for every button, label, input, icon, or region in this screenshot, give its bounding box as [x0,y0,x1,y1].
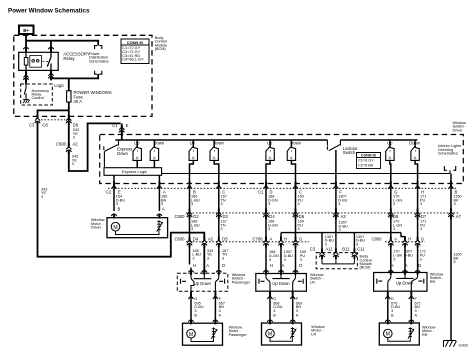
svg-text:H: H [408,237,411,242]
svg-text:Up Down: Up Down [194,281,212,286]
svg-text:D: D [222,263,225,268]
svg-text:A: A [394,237,397,242]
svg-text:3: 3 [298,227,300,231]
svg-text:A11: A11 [325,247,333,252]
svg-text:Passenger: Passenger [229,333,248,337]
svg-text:Up: Up [387,140,393,145]
svg-text:3: 3 [269,258,271,262]
svg-text:3: 3 [273,309,275,313]
svg-text:G: G [273,297,276,301]
svg-text:Down: Down [213,140,224,145]
svg-text:C2: C2 [106,189,112,194]
svg-text:Passenger: Passenger [232,280,251,284]
svg-text:3: 3 [191,227,193,231]
svg-text:B: B [118,206,121,211]
svg-text:D6: D6 [299,214,305,219]
svg-text:Driver: Driver [453,128,464,132]
svg-text:Schematics: Schematics [438,152,458,156]
svg-text:3: 3 [191,202,193,206]
svg-text:CONN ID: CONN ID [127,40,144,45]
svg-text:C2=6 BK: C2=6 BK [358,163,374,167]
svg-text:Driver: Driver [91,226,102,230]
svg-text:C1=6 GY: C1=6 GY [358,159,374,163]
svg-text:3: 3 [194,309,196,313]
svg-text:3: 3 [300,258,302,262]
svg-text:C8: C8 [42,123,48,128]
svg-text:3: 3 [454,202,456,206]
svg-text:D4: D4 [269,214,275,219]
svg-text:C3: C3 [29,123,35,128]
svg-text:C4=68 L-GY: C4=68 L-GY [122,58,144,62]
svg-text:C500: C500 [56,142,67,147]
svg-text:Switch: Switch [343,150,356,155]
svg-text:CONN ID: CONN ID [361,154,377,158]
svg-text:A2: A2 [73,142,79,147]
svg-text:Up: Up [267,140,273,145]
svg-text:A: A [405,263,408,268]
svg-text:Control: Control [32,96,44,100]
svg-text:H: H [391,263,394,268]
svg-text:C800: C800 [372,237,383,242]
svg-text:D2: D2 [193,214,199,219]
svg-text:D4: D4 [193,237,199,242]
svg-text:3: 3 [420,227,422,231]
svg-text:Up: Up [134,140,140,145]
svg-text:C11: C11 [357,247,365,252]
svg-text:C500: C500 [175,214,186,219]
svg-text:A: A [162,206,165,211]
svg-text:D: D [391,297,394,301]
svg-text:3: 3 [415,309,417,313]
svg-text:Down: Down [409,140,420,145]
svg-text:A3: A3 [341,214,347,219]
svg-text:3: 3 [221,202,223,206]
svg-text:D8: D8 [393,214,399,219]
svg-text:3: 3 [221,227,223,231]
svg-text:D3: D3 [223,214,229,219]
svg-text:G303: G303 [459,344,468,348]
svg-text:B11: B11 [342,247,350,252]
svg-text:3: 3 [192,256,194,260]
svg-text:C3: C3 [310,247,316,252]
svg-text:Up: Up [190,140,196,145]
svg-text:3: 3 [420,257,422,261]
svg-text:3: 3 [339,228,341,232]
svg-text:C700: C700 [253,237,264,242]
svg-text:H: H [193,263,196,268]
svg-text:Logic: Logic [54,83,64,88]
svg-text:3: 3 [393,227,395,231]
svg-text:LR: LR [311,332,316,336]
svg-text:RR: RR [430,280,436,284]
svg-text:D5: D5 [222,237,228,242]
svg-text:Schematics: Schematics [89,59,109,63]
svg-text:B: B [194,314,197,318]
svg-text:A: A [206,263,209,268]
svg-text:3: 3 [73,136,75,140]
svg-text:3: 3 [404,257,406,261]
svg-text:3: 3 [268,202,270,206]
svg-text:3: 3 [391,309,393,313]
svg-text:C1: C1 [258,189,264,194]
svg-text:C1: C1 [112,123,118,128]
svg-text:Express Logic: Express Logic [122,169,147,174]
svg-text:RR: RR [422,333,428,337]
svg-text:A: A [282,263,285,268]
svg-text:C600: C600 [175,237,186,242]
svg-text:D6: D6 [73,123,79,128]
svg-text:Relay: Relay [63,56,75,61]
svg-text:(BCM): (BCM) [360,266,372,270]
svg-text:3: 3 [393,257,395,261]
svg-text:3: 3 [298,202,300,206]
svg-text:G: G [299,237,302,242]
svg-text:Power Window Schematics: Power Window Schematics [8,7,90,14]
svg-text:M: M [113,225,117,231]
svg-text:Down: Down [117,151,128,156]
svg-text:D: D [418,263,421,268]
svg-text:H: H [284,237,287,242]
svg-text:Down: Down [154,140,165,145]
svg-text:3: 3 [207,256,209,260]
svg-text:Up Down: Up Down [396,281,414,286]
svg-text:3: 3 [338,202,340,206]
svg-text:3: 3 [222,256,224,260]
svg-text:3: 3 [453,260,455,264]
svg-text:A: A [219,314,222,318]
svg-text:G: G [421,237,424,242]
svg-text:3: 3 [420,202,422,206]
svg-text:3: 3 [296,309,298,313]
svg-text:(BCM): (BCM) [155,47,167,51]
svg-text:A2: A2 [208,237,214,242]
svg-text:Down: Down [290,140,301,145]
svg-text:G: G [194,297,197,301]
svg-text:D7: D7 [421,214,427,219]
svg-text:A7: A7 [456,214,462,219]
svg-text:3: 3 [268,227,270,231]
svg-text:3: 3 [41,195,43,199]
svg-text:Up Down: Up Down [272,281,290,286]
svg-text:A: A [270,237,273,242]
svg-text:A: A [296,314,299,318]
svg-text:3: 3 [284,258,286,262]
svg-text:H: H [270,263,273,268]
svg-text:3: 3 [72,162,74,166]
svg-text:3: 3 [393,202,395,206]
svg-text:LR: LR [310,280,315,284]
svg-text:E: E [126,123,129,128]
svg-text:3: 3 [219,309,221,313]
svg-text:30 A: 30 A [74,99,83,104]
svg-text:B+: B+ [23,28,29,33]
svg-text:D: D [299,263,302,268]
